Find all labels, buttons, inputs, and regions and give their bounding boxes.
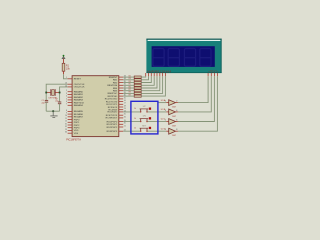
svg-text:RESET: RESET [74,79,82,81]
svg-text:6: 6 [176,120,177,122]
svg-text:RB7/PGD: RB7/PGD [108,96,118,98]
svg-text:U2:A: U2:A [161,99,166,102]
svg-text:9: 9 [66,113,67,115]
svg-text:RC5/SDO: RC5/SDO [107,112,117,114]
svg-text:PSP1: PSP1 [74,122,80,124]
svg-text:RC6/TX/CK: RC6/TX/CK [106,115,118,117]
wire MCU to button1 [123,111,141,113]
wire LCD pin to buffer U2:D output [178,76,218,131]
button group box [131,101,158,134]
svg-text:R3: R3 [129,78,131,80]
svg-text:21: 21 [124,125,126,127]
svg-text:10: 10 [65,115,67,117]
svg-text:12: 12 [65,121,67,123]
buffer U2:B [161,109,178,118]
svg-text:R7: R7 [129,89,131,91]
svg-text:4: 4 [176,110,177,112]
LCD digit 2 [168,49,179,67]
svg-text:U2:D: U2:D [161,128,166,130]
button 2 [134,116,151,123]
buffer U2:D [161,128,178,137]
svg-text:16: 16 [124,100,126,102]
svg-text:1k: 1k [134,108,136,110]
svg-text:RE1/AN6: RE1/AN6 [74,113,84,116]
svg-text:R4: R4 [129,81,131,83]
capacitor C2 [58,102,61,104]
svg-text:31: 31 [65,123,67,125]
LCD digit 3 [184,49,195,67]
svg-text:17: 17 [124,103,126,105]
svg-text:RD2/PSP2: RD2/PSP2 [107,127,118,129]
wire MCU to button2 [123,121,141,123]
U1 right pins [119,77,123,131]
wire OSC2 loop right [60,87,68,102]
svg-text:3: 3 [66,93,67,95]
svg-text:RE2/AN7: RE2/AN7 [74,116,84,119]
svg-text:1k: 1k [134,127,136,129]
wire button1 to U2:B input [147,111,166,113]
svg-text:26: 26 [124,116,126,118]
svg-text:15: 15 [124,97,126,99]
svg-text:29: 29 [65,129,67,131]
svg-text:6: 6 [66,101,67,103]
resistor R5 [123,76,154,86]
wire LCD pin to buffer U2:C output [178,76,215,121]
U1 right pin names [105,77,118,133]
svg-text:RA4/T0CK: RA4/T0CK [74,101,85,104]
U1 right pin numbers [124,76,126,132]
svg-text:RA0/AN0: RA0/AN0 [74,91,84,94]
buffer U2:C [161,119,178,128]
svg-text:RA3/AN3: RA3/AN3 [74,99,84,102]
svg-text:11: 11 [65,118,67,120]
svg-text:R2: R2 [129,75,131,77]
U1 left pin names [74,79,85,135]
svg-text:1k: 1k [134,118,136,120]
svg-text:VDD: VDD [74,130,79,132]
junction left of crystal [45,92,47,94]
svg-text:14: 14 [65,85,67,87]
resistor R6 [123,76,157,89]
ground [50,111,57,117]
svg-text:RC1/T1OSI: RC1/T1OSI [106,101,118,103]
svg-text:<TEXT>: <TEXT> [208,69,219,73]
svg-text:U2:B: U2:B [161,109,166,111]
svg-text:RA1/AN1: RA1/AN1 [74,93,84,96]
op-amp U1 microcontroller body [72,76,119,137]
LCD right pins [208,73,217,76]
svg-text:RA5/AN4: RA5/AN4 [74,104,84,107]
svg-text:2: 2 [66,90,67,92]
svg-text:5: 5 [66,98,67,100]
svg-text:RD1/PSP1: RD1/PSP1 [107,124,118,126]
svg-text:13: 13 [65,83,67,85]
svg-text:2: 2 [176,101,177,103]
svg-text:PIC16F877A: PIC16F877A [66,138,81,142]
svg-text:DN: DN [143,116,147,118]
svg-text:PSP3: PSP3 [74,128,80,130]
wire OSC1 loop left [46,84,67,100]
U1 left pin numbers [65,77,67,133]
svg-text:R8: R8 [129,92,131,94]
wire C1 bottom [45,102,47,111]
junction right of crystal [59,92,61,94]
resistor R8 [123,76,162,94]
svg-text:22p: 22p [42,102,45,104]
wire MCU to button3 [123,130,141,132]
resistor R9 [123,76,165,97]
svg-text:RB0/INT: RB0/INT [109,77,118,79]
svg-text:1: 1 [66,77,67,79]
resistor R3 [123,76,148,81]
button 1 [134,106,151,113]
svg-text:AMPIRE128X64: AMPIRE128X64 [147,69,172,73]
power +5V symbol [62,55,65,64]
svg-text:7: 7 [66,104,67,106]
svg-text:R9: R9 [129,94,131,96]
svg-text:VSS: VSS [74,133,79,135]
wire node bus box to U2:A input [158,102,166,104]
svg-text:20: 20 [124,123,126,125]
svg-text:R5: R5 [129,84,131,86]
wire button3 to U2:D input [147,130,166,132]
button 3 [134,125,151,132]
resistor R1 [62,63,65,74]
svg-text:32: 32 [65,126,67,128]
svg-text:RC2/CCP1: RC2/CCP1 [106,104,118,106]
svg-text:R6: R6 [129,86,131,88]
svg-text:RE0/AN5: RE0/AN5 [74,110,84,113]
svg-text:RB6/PGC: RB6/PGC [108,93,118,95]
resistor R7 [123,76,160,92]
resistor R2 [123,75,146,78]
svg-text:30: 30 [65,132,67,134]
svg-text:RD3/PSP3: RD3/PSP3 [107,131,118,133]
crystal X1 [46,89,59,96]
LCD digit 1 [153,49,164,67]
svg-text:8: 8 [176,129,177,131]
capacitor C1 [45,100,48,102]
svg-text:4: 4 [66,96,67,98]
svg-text:RC7/RX/DT: RC7/RX/DT [106,118,118,120]
svg-text:PSP2: PSP2 [74,125,80,127]
svg-text:PSP0: PSP0 [74,119,80,121]
wire button2 to U2:C input [147,121,166,123]
svg-text:8: 8 [66,110,67,112]
LCD digit 4 [200,49,211,67]
junction ground rail [52,110,54,112]
wire reset: R1 to MCLR pin [64,74,68,79]
svg-text:RD0/PSP0: RD0/PSP0 [107,121,118,123]
svg-text:22p: 22p [55,101,58,103]
svg-text:SET: SET [142,125,147,127]
U1 left pins [68,79,73,133]
svg-text:OSC2/CLK: OSC2/CLK [74,87,85,89]
wire ground rail [46,110,59,112]
wire LCD pin to buffer U2:B output [178,76,211,112]
wire C2 bottom [59,104,61,112]
buffer U2:A [161,99,178,109]
resistor R4 [123,76,151,84]
LCD left pins [146,73,166,76]
svg-text:RA2/AN2: RA2/AN2 [74,96,84,99]
LCD1 display [146,39,221,73]
svg-text:OSC1/CLK: OSC1/CLK [74,84,85,86]
svg-text:RB3/PGM: RB3/PGM [107,85,117,87]
svg-text:25: 25 [124,114,126,116]
svg-text:U2:C: U2:C [161,119,166,121]
wire LCD pin to buffer U2:A output [178,76,208,103]
svg-text:RC3/SCK: RC3/SCK [108,107,118,109]
svg-text:18: 18 [124,105,126,107]
svg-text:RC0/T1OSO: RC0/T1OSO [105,99,118,101]
